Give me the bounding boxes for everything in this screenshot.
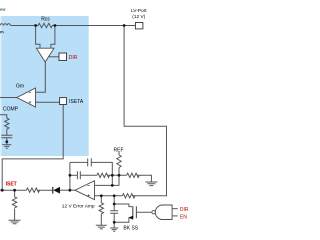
capacitor Ccomp bbox=[1, 135, 12, 138]
resistor Rcs bbox=[37, 23, 53, 27]
junction node ISET link bbox=[1, 189, 4, 192]
error amp minus mark bbox=[87, 184, 89, 186]
wire CSA input left bbox=[36, 26, 40, 49]
svg-text:DIR: DIR bbox=[69, 55, 78, 61]
wire feedback top branch bbox=[70, 162, 112, 175]
wire NAND input DIR bbox=[172, 208, 178, 210]
wire cap branch bbox=[113, 196, 115, 211]
Gm plus mark bbox=[29, 101, 31, 103]
transistor Q1 source arrow bbox=[129, 216, 134, 220]
resistor Rdiv lower bbox=[127, 173, 140, 177]
wire error amp output node vertical bbox=[69, 162, 71, 190]
junction node plus cap bbox=[113, 194, 116, 197]
wire SW rail right to LV port bbox=[53, 25, 135, 27]
svg-text:DIR: DIR bbox=[180, 207, 189, 213]
junction node source return bbox=[113, 221, 116, 224]
resistor Rref bbox=[117, 155, 121, 168]
svg-text:REF: REF bbox=[114, 147, 124, 153]
wire feedback node bbox=[108, 174, 127, 176]
wire diode to output node bbox=[60, 189, 75, 191]
capacitor Css bbox=[110, 211, 118, 214]
wire SW rail left bbox=[11, 25, 38, 27]
svg-text:Rcs: Rcs bbox=[41, 16, 50, 22]
wire Riset to ground bbox=[14, 209, 16, 221]
wire inverting input riser bbox=[111, 175, 113, 185]
ground REF divider bbox=[145, 182, 157, 186]
wire Rcomp to Ccomp bbox=[6, 129, 8, 135]
capacitor Cfb2 bbox=[77, 171, 80, 179]
transistor Q1 channel bar bbox=[132, 206, 134, 218]
wire Rg to ground bbox=[100, 214, 102, 225]
wire ISET resistor stub bbox=[14, 190, 16, 197]
junction node SW left bbox=[34, 24, 37, 27]
wire FET source bbox=[114, 218, 132, 223]
junction node feedback mid bbox=[69, 174, 72, 177]
junction node COMP cap bbox=[5, 140, 8, 143]
wire Ccomp to ground bbox=[6, 138, 8, 145]
box edge highlight strip bbox=[0, 16, 2, 156]
wire Rg stub bbox=[100, 196, 102, 203]
shaded IC block background bbox=[2, 16, 89, 156]
ground COMP bbox=[2, 145, 11, 149]
wire Css to ground bbox=[113, 213, 115, 228]
Gm minus mark bbox=[29, 91, 31, 93]
svg-text:Gm: Gm bbox=[16, 83, 24, 89]
wire gate lead bbox=[136, 211, 152, 213]
resistor Rg bbox=[99, 203, 103, 214]
junction node inverting input bbox=[111, 184, 114, 187]
diode D1 bbox=[53, 187, 60, 194]
op-amp U2 Gm amp bbox=[17, 88, 36, 107]
junction node drain branch bbox=[113, 203, 116, 206]
svg-text:12 V Error Amp: 12 V Error Amp bbox=[62, 204, 95, 210]
wire CSA input right bbox=[51, 26, 55, 49]
junction node SW right bbox=[54, 24, 57, 27]
wire COMP compensation branch bbox=[0, 115, 7, 118]
resistor Rfb bbox=[97, 173, 110, 177]
junction node plus divider bbox=[100, 194, 103, 197]
ground ISET bbox=[9, 220, 21, 224]
pin box DIR bbox=[59, 53, 67, 61]
resistor Rin plus bbox=[122, 194, 135, 198]
wire Cfb2 to Rfb bbox=[80, 174, 97, 176]
wire LV rail drop bbox=[124, 26, 166, 196]
svg-text:EN: EN bbox=[180, 215, 187, 221]
svg-text:(12 V): (12 V) bbox=[132, 14, 145, 20]
node m label fragment (clipped at left edge) bbox=[0, 31, 3, 33]
junction node REF divider bbox=[118, 174, 121, 177]
svg-text:BK SS: BK SS bbox=[123, 226, 138, 232]
resistor Rcomp bbox=[5, 118, 9, 129]
wire ISET node bbox=[0, 189, 52, 191]
transistor Q1 gate bar bbox=[135, 206, 137, 218]
op-amp U1 current sense amp bbox=[36, 48, 54, 62]
wire NAND input EN bbox=[172, 215, 178, 217]
wire Rref to feedback node bbox=[95, 168, 120, 186]
wire Rdiv to ground bbox=[137, 175, 151, 182]
wire CSA output to Gm input bbox=[36, 62, 46, 92]
wire FET drain bbox=[114, 204, 132, 207]
wire REF stub bbox=[118, 152, 120, 155]
wire feedback bottom branch left bbox=[70, 174, 78, 176]
junction node ISET resistor bbox=[13, 189, 16, 192]
inductor L1 bbox=[0, 24, 11, 26]
resistor Rset series bbox=[26, 188, 39, 192]
junction node error amp output bbox=[69, 189, 72, 192]
resistor Riset bbox=[12, 197, 16, 208]
pin box ISETA bbox=[60, 98, 67, 105]
svg-text:COMP: COMP bbox=[3, 107, 19, 113]
gate U4 bubble bbox=[152, 211, 155, 214]
ground Css bbox=[110, 228, 118, 231]
wire ISETA to ISET link bbox=[2, 105, 63, 191]
gate U4 NAND body bbox=[155, 205, 172, 220]
error amp plus mark bbox=[87, 194, 89, 196]
op-amp U3 12V error amp bbox=[75, 181, 95, 200]
capacitor Cfb1 bbox=[88, 158, 92, 166]
ground Rg bbox=[96, 225, 107, 229]
junction node LV rail bbox=[123, 24, 126, 27]
wire Gm minus input to ISETA pin bbox=[36, 101, 60, 103]
svg-text:LV-Port: LV-Port bbox=[131, 8, 147, 14]
junction node feedback right bbox=[111, 174, 114, 177]
svg-text:ISETA: ISETA bbox=[69, 99, 84, 105]
wire COMP output bbox=[0, 97, 17, 99]
wire noninverting input node bbox=[95, 195, 123, 197]
svg-text:ISET: ISET bbox=[6, 182, 17, 188]
wire CSA to DIR pin bbox=[48, 56, 59, 58]
port box LV-Port bbox=[135, 23, 143, 29]
node Cm label fragment (clipped at left edge) bbox=[0, 9, 5, 11]
